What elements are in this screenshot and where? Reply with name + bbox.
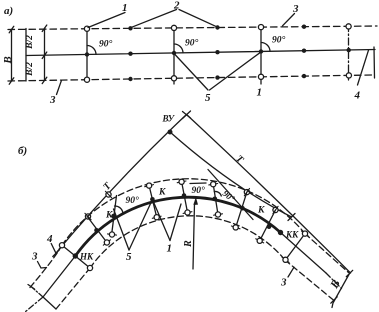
centerline axis bbox=[26, 50, 375, 56]
station 2 circles and dot bbox=[171, 25, 176, 30]
T dimension tick on right tangent bbox=[288, 214, 295, 221]
radial station 2 on curve bbox=[149, 186, 157, 218]
chord construction line from tangent dot bbox=[170, 132, 292, 217]
station 3 perpendicular bbox=[260, 25, 262, 84]
station 4 dash-dot perpendicular bbox=[348, 25, 350, 81]
svg-text:В: В bbox=[2, 56, 14, 64]
dimension line B bbox=[11, 30, 13, 82]
svg-text:5: 5 bbox=[205, 92, 211, 104]
svg-text:4: 4 bbox=[354, 90, 361, 102]
svg-text:90°: 90° bbox=[272, 35, 286, 46]
svg-text:В/2: В/2 bbox=[25, 62, 35, 77]
left straight axis segment bbox=[43, 256, 75, 297]
svg-text:5: 5 bbox=[126, 251, 132, 263]
svg-text:НК: НК bbox=[79, 252, 94, 262]
extension line bbox=[25, 29, 27, 82]
svg-text:б): б) bbox=[18, 145, 27, 157]
station 1 circles and dot bbox=[84, 26, 89, 31]
circles on chord line bbox=[244, 190, 249, 195]
outer dashed boundary bbox=[30, 245, 62, 287]
svg-text:К: К bbox=[105, 211, 113, 221]
right end bar bbox=[373, 47, 376, 78]
perpendicular station after KK bbox=[286, 234, 306, 260]
svg-text:3: 3 bbox=[292, 3, 299, 15]
svg-text:3: 3 bbox=[31, 251, 38, 263]
radial station S0 on curve bbox=[88, 218, 107, 243]
axis dash-dot extension right end bbox=[326, 273, 342, 289]
NK point bbox=[73, 253, 78, 258]
dot on left tangent bbox=[168, 130, 173, 135]
svg-text:1: 1 bbox=[167, 243, 173, 255]
svg-text:R: R bbox=[183, 240, 194, 248]
station 1 perpendicular bbox=[86, 27, 88, 82]
radial station S1 on curve bbox=[112, 196, 117, 236]
svg-text:90°: 90° bbox=[192, 185, 206, 196]
svg-text:4: 4 bbox=[46, 233, 53, 245]
radial station 4 on curve bbox=[213, 184, 218, 214]
90 deg arc and label at station S1 bbox=[115, 206, 123, 213]
B dimension at right road end bbox=[332, 274, 350, 308]
svg-text:К: К bbox=[158, 188, 166, 198]
tick at outer end left bbox=[28, 285, 35, 290]
radial station 3 on curve bbox=[182, 182, 188, 213]
90 deg arc at station 3 bbox=[261, 43, 270, 52]
svg-text:90°: 90° bbox=[99, 39, 113, 50]
svg-text:90°: 90° bbox=[126, 195, 140, 206]
intermediate dots x=130.5 bbox=[128, 26, 132, 30]
right tangent line T bbox=[187, 115, 351, 274]
inner dashed boundary bbox=[56, 268, 90, 309]
svg-text:3: 3 bbox=[49, 94, 56, 106]
left road end bar bbox=[31, 287, 43, 298]
svg-text:К: К bbox=[257, 206, 265, 216]
intermediate dots x=217.5 bbox=[215, 25, 219, 29]
cross ticks on staked circles bbox=[59, 181, 308, 272]
90 deg arc at station 1 bbox=[87, 46, 96, 55]
top dashed boundary line bbox=[8, 26, 377, 30]
bottom dashed boundary line bbox=[8, 75, 372, 81]
construction line through station 4 bbox=[208, 170, 253, 220]
svg-text:3: 3 bbox=[280, 277, 287, 289]
90 deg with overline at curve apex bbox=[190, 182, 206, 185]
svg-text:а): а) bbox=[4, 5, 13, 17]
station 2 perpendicular bbox=[173, 26, 175, 84]
main curve axis thick bbox=[75, 197, 280, 256]
svg-text:ВУ: ВУ bbox=[162, 114, 176, 124]
radial at NK bbox=[62, 245, 90, 268]
svg-text:1: 1 bbox=[257, 87, 263, 99]
svg-text:КК: КК bbox=[285, 230, 299, 240]
radial station S6 on curve bbox=[260, 210, 276, 241]
intermediate dots x=304 bbox=[302, 25, 306, 29]
90 deg arc at station 2 bbox=[174, 44, 183, 53]
apex mark VU bbox=[183, 112, 191, 119]
90 deg arc and slanted label near station 4 bbox=[214, 191, 221, 196]
staked circles on left tangent line bbox=[85, 214, 90, 219]
axis dash-dot extension left end bbox=[25, 297, 43, 312]
right straight axis segment bbox=[281, 233, 327, 274]
svg-text:90°: 90° bbox=[185, 38, 199, 49]
KK point bbox=[278, 230, 283, 235]
station 3 circles and dot bbox=[258, 25, 263, 30]
left tangent construction line bbox=[56, 115, 187, 254]
radial station S5 on curve bbox=[236, 192, 247, 227]
radius R line with arrow bbox=[193, 203, 195, 269]
dimension line B/2 bbox=[44, 28, 46, 80]
svg-text:В/2: В/2 bbox=[25, 35, 35, 50]
